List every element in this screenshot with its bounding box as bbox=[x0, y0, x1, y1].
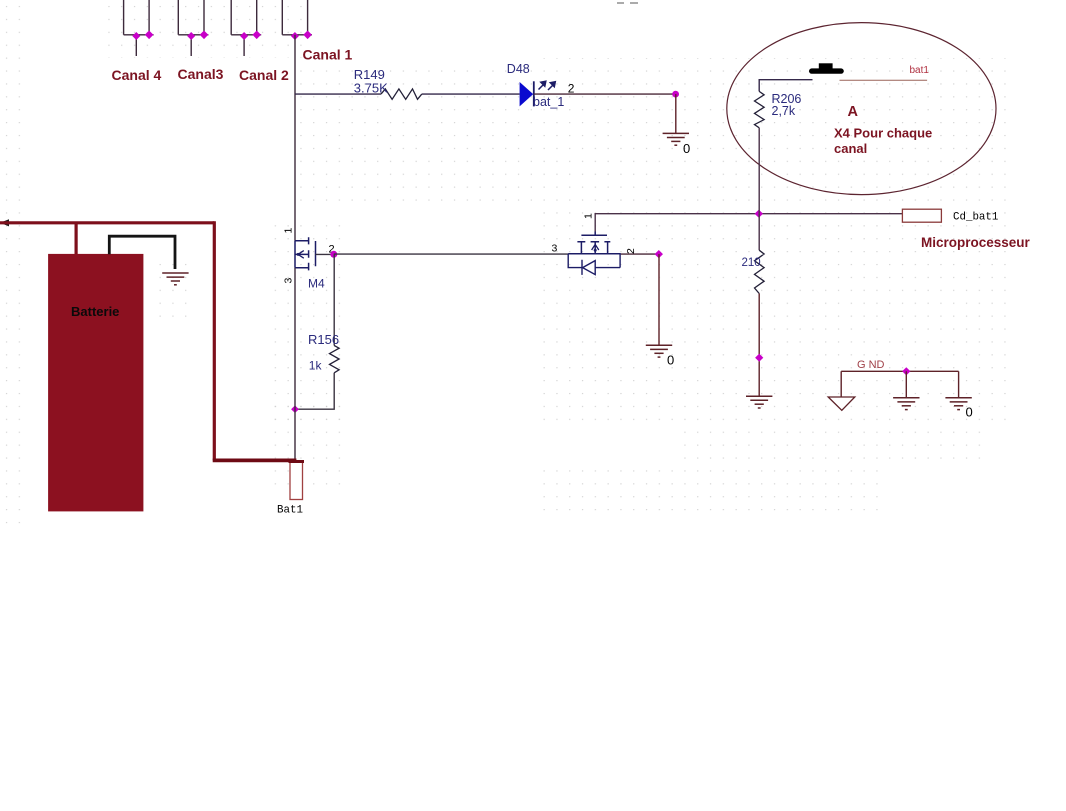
junction dot Q2 drain bbox=[655, 250, 663, 258]
LED arrows bbox=[539, 81, 556, 90]
junction dot node 2 bbox=[330, 251, 337, 258]
resistor R206 bbox=[755, 91, 765, 127]
button bat1 bbox=[809, 63, 844, 74]
junction on Canal3 bbox=[187, 31, 208, 41]
svg-text:210: 210 bbox=[742, 257, 761, 269]
wire R156 top bbox=[333, 254, 335, 345]
ground 0 (after D48) bbox=[663, 133, 689, 145]
Bat1 top cap bbox=[289, 460, 305, 463]
wire node2 to Q2 source bbox=[334, 253, 568, 255]
ground (R210) bbox=[746, 396, 772, 408]
wire down to ground 0 bbox=[675, 94, 677, 133]
svg-text:3: 3 bbox=[283, 278, 295, 284]
mosfet M4 bbox=[295, 237, 316, 270]
svg-text:M4: M4 bbox=[308, 277, 325, 291]
svg-text:2,7k: 2,7k bbox=[772, 104, 796, 118]
wire R149 to D48 bbox=[422, 93, 520, 95]
ground (battery) bbox=[162, 273, 188, 285]
junction on Canal 2 bbox=[240, 31, 261, 41]
svg-text:canal: canal bbox=[834, 141, 867, 156]
wire Q2 drain to ground bbox=[658, 254, 660, 345]
wire junction to R210 bbox=[758, 214, 760, 251]
connector Canal 4 bbox=[124, 0, 154, 56]
svg-text:A: A bbox=[848, 104, 859, 120]
junction dot below R210 bbox=[755, 354, 763, 362]
junction dot on gate net bbox=[755, 210, 763, 218]
svg-text:X4 Pour chaque: X4 Pour chaque bbox=[834, 126, 932, 141]
wire Q2 drain to junction bbox=[621, 253, 659, 255]
GND left wire to arrow bbox=[840, 371, 842, 397]
ground (GND middle) bbox=[893, 398, 919, 410]
bus arrow left edge bbox=[0, 219, 9, 226]
mosfet Q2 body bbox=[568, 232, 621, 254]
wire R210 to ground bbox=[758, 294, 760, 397]
junction dot GND bbox=[902, 367, 910, 375]
battery body bbox=[48, 254, 143, 512]
svg-text:Canal3: Canal3 bbox=[178, 66, 224, 82]
connector Canal3 bbox=[178, 0, 208, 56]
svg-text:bat_1: bat_1 bbox=[533, 95, 564, 109]
ground (GND right) bbox=[945, 398, 971, 410]
svg-text:3: 3 bbox=[552, 242, 558, 254]
net GND horizontal bbox=[841, 370, 958, 372]
svg-text:1: 1 bbox=[582, 213, 594, 219]
junction on Canal 4 bbox=[132, 31, 153, 41]
svg-text:2: 2 bbox=[625, 248, 637, 254]
top edge marks bbox=[617, 2, 638, 4]
thick bus right vertical bbox=[213, 221, 216, 460]
svg-text:bat1: bat1 bbox=[910, 65, 930, 76]
mosfet Q2 bulk arrow bbox=[592, 244, 599, 250]
mosfet Q2 body diode bbox=[568, 254, 620, 275]
thick bus stub to battery bbox=[74, 223, 77, 255]
junction dot after D48 bbox=[672, 91, 679, 98]
component Bat1 bbox=[290, 462, 303, 500]
thick bus bottom to Bat1 bbox=[213, 458, 297, 462]
svg-text:Bat1: Bat1 bbox=[277, 505, 303, 517]
svg-text:1: 1 bbox=[283, 228, 295, 234]
resistor R149 bbox=[381, 89, 422, 99]
component Cd_bat1 port bbox=[902, 209, 941, 222]
connector Canal 1 bbox=[282, 0, 312, 35]
connector Canal 2 bbox=[231, 0, 261, 56]
mosfet M4 bulk arrow bbox=[298, 251, 304, 259]
svg-text:0: 0 bbox=[966, 405, 973, 420]
svg-text:G ND: G ND bbox=[857, 359, 885, 371]
ellipse X4 annotation bbox=[727, 23, 996, 195]
wire M4 source down to bus bbox=[294, 268, 296, 461]
ground 0 (Q2) bbox=[646, 345, 672, 357]
svg-text:0: 0 bbox=[683, 141, 690, 156]
svg-text:Canal 4: Canal 4 bbox=[112, 67, 162, 83]
wire R156 bottom bbox=[295, 373, 334, 409]
svg-text:R156: R156 bbox=[308, 332, 339, 347]
svg-text:D48: D48 bbox=[507, 62, 530, 76]
GND middle wire bbox=[905, 371, 907, 398]
wire R206 top corner bbox=[759, 80, 812, 92]
svg-text:0: 0 bbox=[667, 353, 674, 368]
LED D48 bbox=[520, 81, 534, 106]
wire Q2 gate net to microprocessor bbox=[595, 214, 902, 232]
arrow ground triangle bbox=[828, 397, 855, 410]
svg-text:Canal 1: Canal 1 bbox=[303, 47, 353, 63]
svg-text:Microprocesseur: Microprocesseur bbox=[921, 235, 1031, 250]
wire canal1 vertical to M4 drain bbox=[294, 35, 296, 241]
wire D48 to ground node bbox=[534, 93, 676, 95]
thick bus top bbox=[0, 221, 214, 224]
resistor 210 bbox=[755, 250, 765, 293]
wire M4 gate to junction bbox=[316, 253, 334, 255]
svg-text:3.75K: 3.75K bbox=[354, 80, 388, 95]
svg-text:Canal 2: Canal 2 bbox=[239, 67, 289, 83]
svg-text:Batterie: Batterie bbox=[71, 304, 119, 319]
wire bat1 thin bbox=[840, 79, 928, 81]
junction on Canal 1 bbox=[291, 31, 312, 41]
black wire battery to ground bbox=[109, 236, 175, 269]
wire node canal1 to R149 bbox=[295, 93, 381, 95]
wire R206 bottom to junction bbox=[758, 128, 760, 214]
svg-text:1k: 1k bbox=[309, 359, 323, 373]
junction dot at M4 source bbox=[291, 405, 299, 413]
svg-text:Cd_bat1: Cd_bat1 bbox=[953, 211, 998, 223]
GND right wire bbox=[958, 371, 960, 398]
resistor R156 bbox=[330, 346, 340, 373]
